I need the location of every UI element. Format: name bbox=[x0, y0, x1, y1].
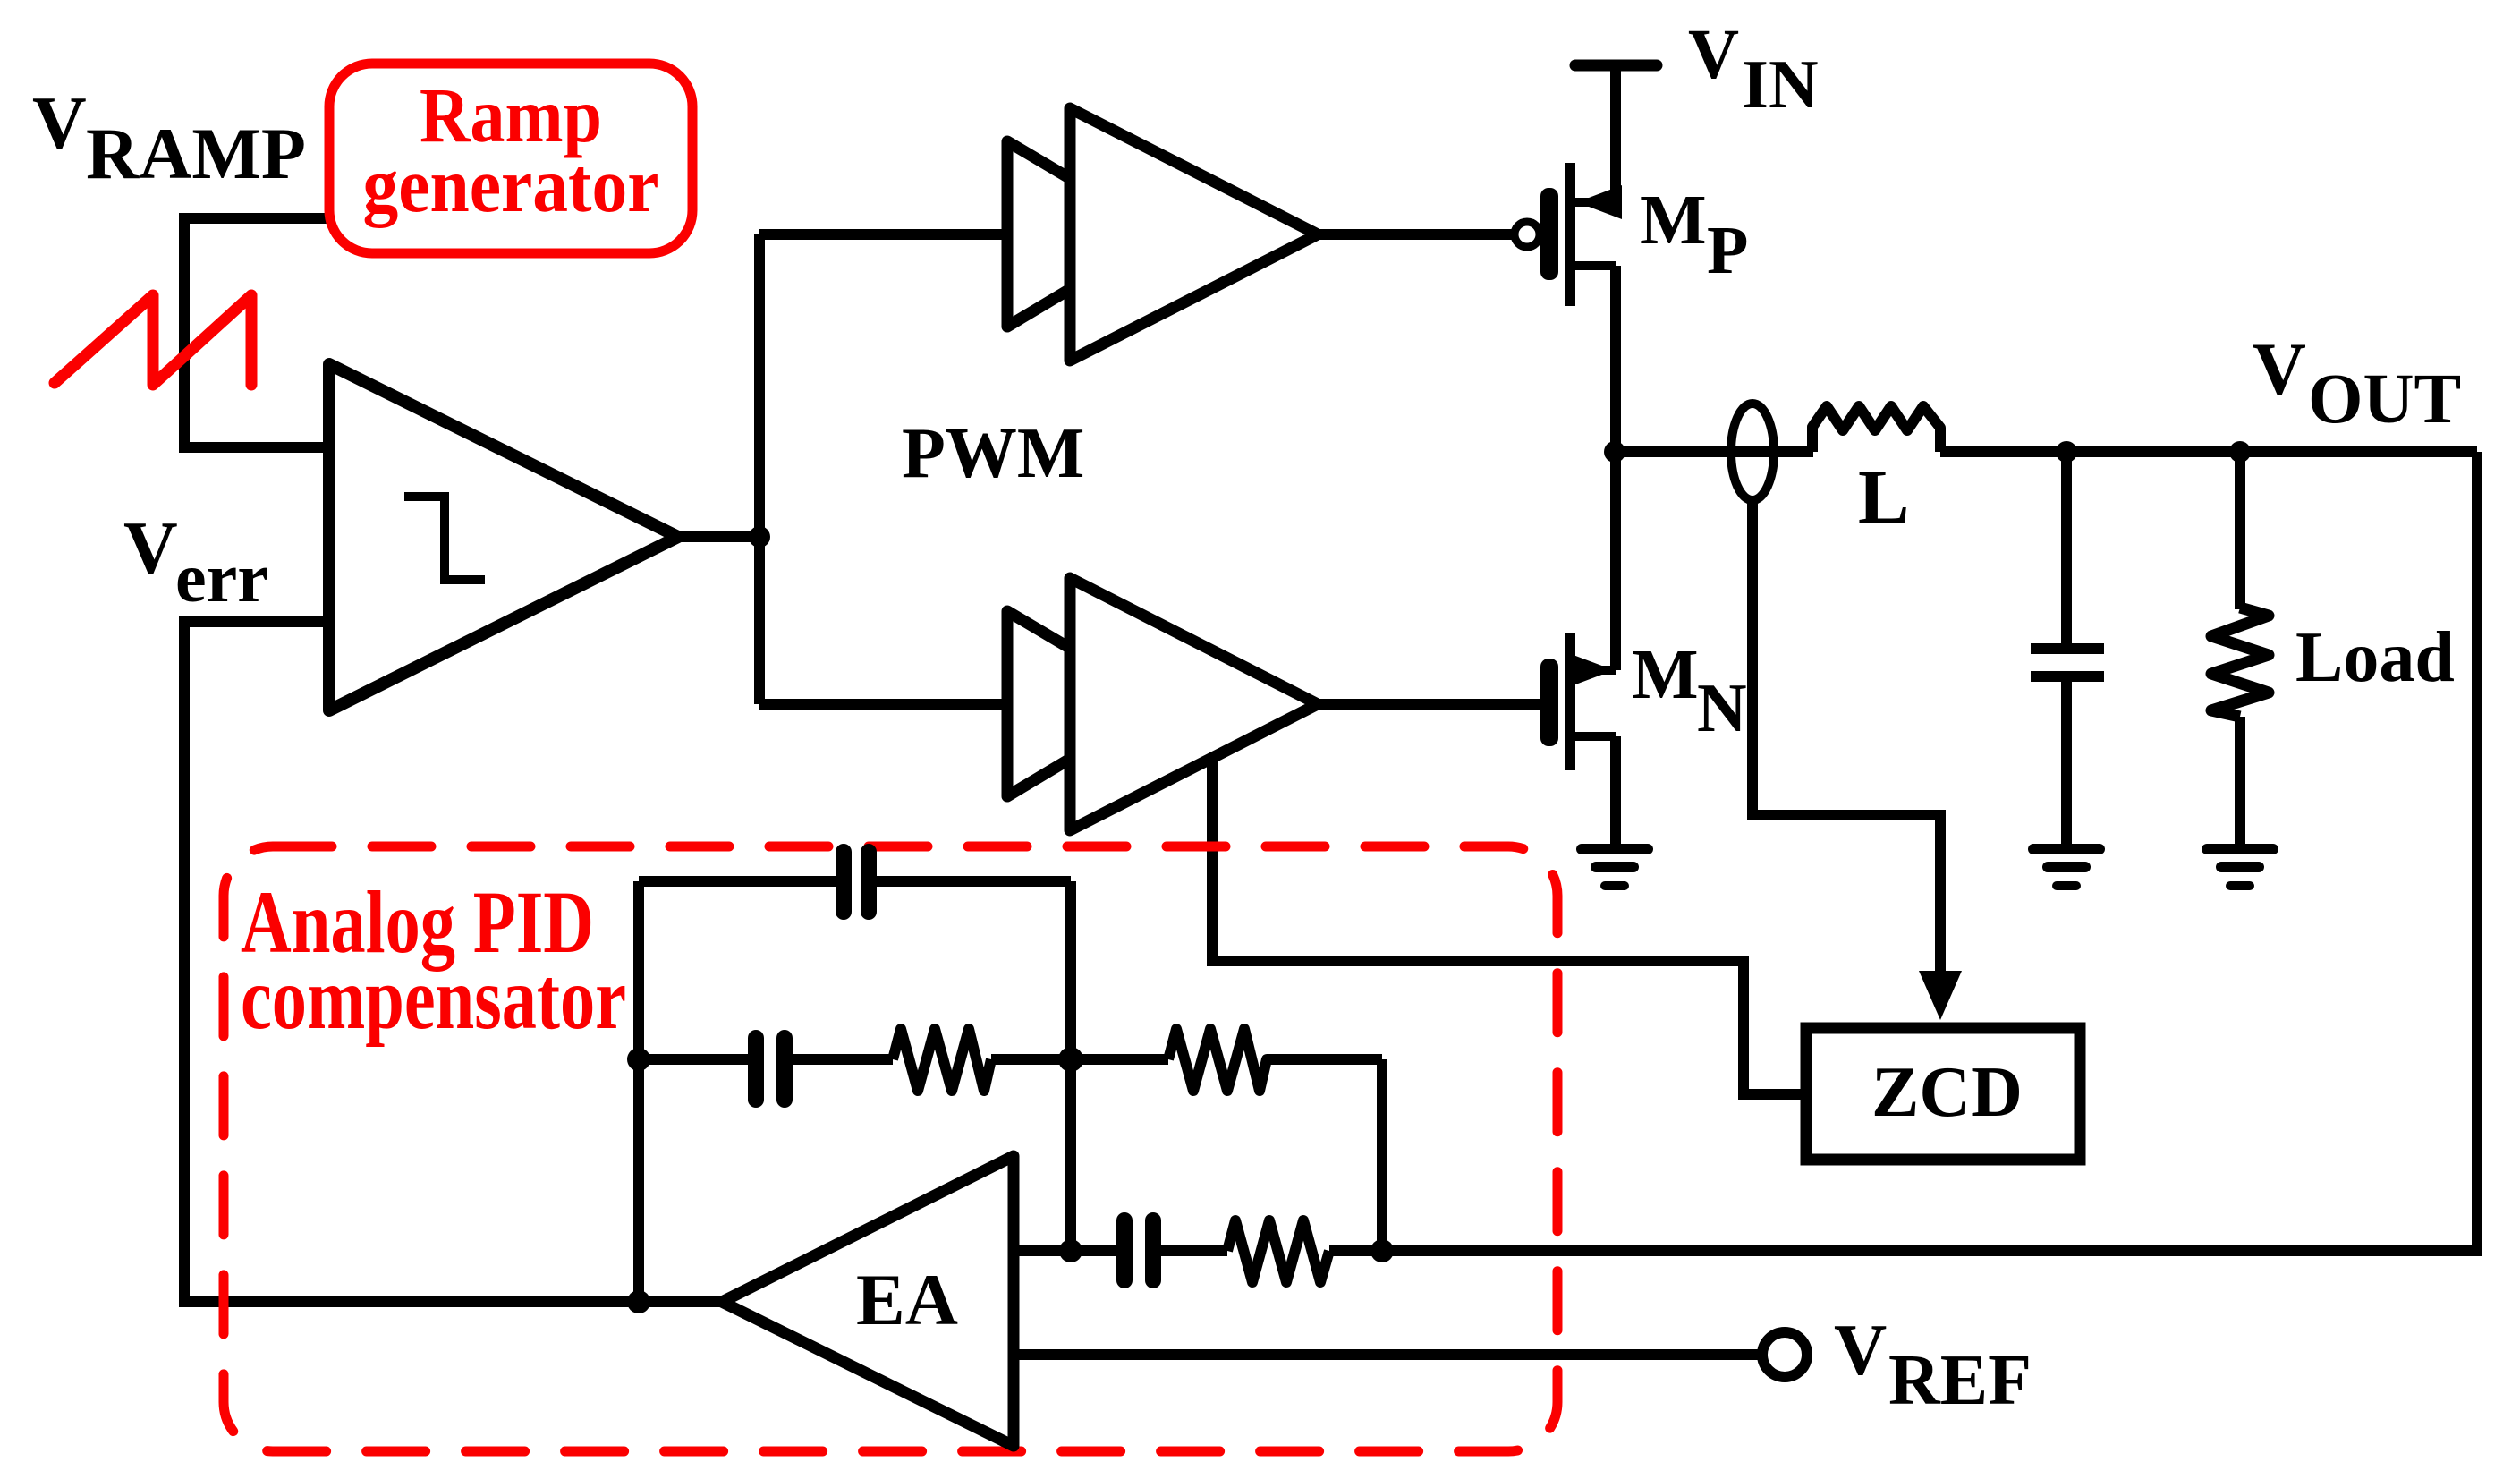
terminal VREF bbox=[1762, 1332, 1807, 1377]
wire Verr (EA output to comparator inverting input) bbox=[184, 622, 722, 1302]
svg-text:IN: IN bbox=[1742, 46, 1819, 123]
ramp generator block bbox=[329, 64, 692, 253]
capacitor C3 (EA input) bbox=[1124, 1220, 1153, 1280]
resistor R2 (to vertical C) bbox=[1168, 1029, 1283, 1091]
resistor Load bbox=[2211, 452, 2269, 845]
svg-text:M: M bbox=[1632, 636, 1699, 714]
node load junction bbox=[2229, 441, 2251, 463]
node vertical B to EA rail bbox=[1059, 1239, 1082, 1262]
svg-text:V: V bbox=[1834, 1309, 1887, 1390]
buffer upper driver stage2 bbox=[1070, 108, 1318, 361]
label VIN bbox=[1688, 16, 1819, 123]
wire VOUT feedback (right edge down and back to EA network) bbox=[1382, 452, 2477, 1251]
node vertical C to EA rail bbox=[1370, 1239, 1394, 1262]
svg-text:V: V bbox=[1688, 16, 1739, 94]
label VRAMP bbox=[32, 81, 306, 194]
current sense probe bbox=[1731, 404, 1774, 500]
wire PWM node vertical bbox=[754, 234, 765, 704]
svg-text:OUT: OUT bbox=[2308, 361, 2461, 438]
op-amp EA bbox=[722, 1156, 1014, 1446]
svg-text:REF: REF bbox=[1888, 1341, 2032, 1420]
buffer upper driver stage1 bbox=[1007, 141, 1163, 327]
node feedback A middle bbox=[627, 1048, 650, 1071]
wire sense to ZCD arrow bbox=[1752, 501, 1940, 975]
wire feedback vertical C bbox=[1377, 1059, 1387, 1251]
svg-text:P: P bbox=[1707, 213, 1748, 288]
svg-text:V: V bbox=[2253, 327, 2306, 410]
wire EA inverting input rail bbox=[1014, 1245, 1118, 1256]
wire EA non-inverting input to VREF bbox=[1014, 1349, 1761, 1360]
ground below MN bbox=[1582, 849, 1648, 886]
power VIN rail bbox=[1575, 60, 1657, 72]
ramp waveform bbox=[55, 295, 251, 385]
ground below load bbox=[2207, 849, 2273, 886]
red dashed box analog PID compensator bbox=[224, 846, 1557, 1451]
svg-text:V: V bbox=[32, 81, 87, 165]
block ZCD bbox=[1806, 1028, 2080, 1160]
ground below filter cap bbox=[2033, 849, 2100, 886]
transistor MP bbox=[1515, 65, 1622, 452]
svg-text:PWM: PWM bbox=[902, 414, 1084, 493]
label VREF bbox=[1834, 1309, 2032, 1420]
svg-text:ZCD: ZCD bbox=[1871, 1053, 2023, 1132]
label Verr bbox=[123, 506, 268, 616]
node EA output bbox=[627, 1290, 650, 1313]
wire comparator output bbox=[678, 531, 759, 542]
label Analog PID compensator bbox=[241, 872, 626, 1048]
wire feedback vertical A bbox=[633, 881, 644, 1302]
comparator U1 bbox=[329, 364, 678, 710]
node switch junction bbox=[1604, 441, 1625, 463]
svg-text:compensator: compensator bbox=[241, 948, 626, 1048]
svg-text:err: err bbox=[175, 539, 268, 616]
buffer lower driver stage2 bbox=[1070, 578, 1318, 830]
node PWM output junction bbox=[749, 526, 770, 548]
node middle junction bbox=[1058, 1047, 1083, 1072]
wire switch node to inductor bbox=[1615, 446, 1813, 457]
capacitor C2 (middle feedback) bbox=[756, 1038, 785, 1100]
resistor R3 (EA input) bbox=[1227, 1220, 1329, 1282]
wire upper driver to MP gate bbox=[1318, 229, 1514, 240]
node filter cap junction bbox=[2056, 441, 2077, 463]
resistor R1 (middle feedback) bbox=[893, 1029, 991, 1091]
svg-text:Load: Load bbox=[2295, 618, 2455, 697]
wire middle feedback rail bbox=[639, 1054, 750, 1065]
label MN bbox=[1632, 636, 1747, 746]
svg-text:N: N bbox=[1697, 669, 1747, 746]
arrowhead into ZCD bbox=[1919, 971, 1962, 1020]
inductor L bbox=[1812, 406, 1940, 452]
wire inductor to VOUT corner bbox=[1940, 446, 2477, 457]
wire to lower gate driver bbox=[759, 699, 1009, 710]
capacitor C output filter bbox=[2031, 452, 2104, 845]
transistor MN bbox=[1540, 452, 1616, 845]
svg-text:L: L bbox=[1858, 454, 1909, 540]
svg-text:M: M bbox=[1640, 182, 1707, 259]
label MP bbox=[1640, 182, 1748, 288]
svg-text:V: V bbox=[123, 506, 178, 590]
buffer lower driver stage1 bbox=[1007, 611, 1163, 796]
wire VRAMP input (ramp generator to comparator non-inverting input) bbox=[184, 218, 329, 447]
svg-text:generator: generator bbox=[363, 141, 659, 228]
svg-text:RAMP: RAMP bbox=[86, 113, 306, 194]
capacitor C1 (top feedback) bbox=[844, 852, 869, 912]
wire gate signal tap to ZCD bbox=[1212, 758, 1802, 1094]
wire top feedback rail bbox=[639, 876, 838, 887]
wire lower driver to MN gate bbox=[1318, 699, 1541, 710]
wire to upper gate driver bbox=[759, 229, 1009, 240]
svg-text:EA: EA bbox=[856, 1259, 958, 1340]
wire feedback vertical B bbox=[1065, 881, 1076, 1251]
label VOUT bbox=[2253, 327, 2461, 438]
